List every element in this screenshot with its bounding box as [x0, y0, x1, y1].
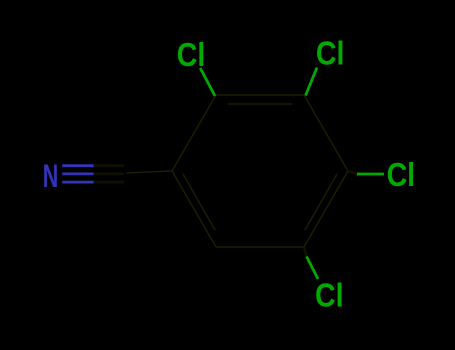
svg-text:Cl: Cl [387, 157, 416, 194]
nitrile single bond C1-C7 [126, 171, 172, 173]
ring bond C5-C6 [216, 246, 304, 248]
ring bond C4-C5 [304, 171, 348, 247]
nitrile triple bond olive half [94, 164, 124, 167]
inner aromatic line C2=C3 [228, 103, 292, 105]
bond C4-Cl4 green part [357, 173, 384, 176]
ring bond C2-C3 [216, 94, 304, 96]
nitrile triple bond blue half [62, 164, 93, 167]
bond C4-Cl4 olive stub [348, 171, 357, 174]
svg-text:Cl: Cl [316, 35, 345, 72]
bond C3-Cl3 [306, 68, 318, 96]
ring bond C1-C2 [172, 95, 216, 171]
bond C5-Cl5 olive stub [304, 247, 307, 257]
svg-text:Cl: Cl [177, 37, 206, 74]
svg-text:Cl: Cl [315, 278, 344, 315]
inner aromatic line C6=C1 [183, 174, 215, 230]
svg-text:N: N [43, 158, 59, 194]
bond C2-Cl2 [200, 68, 215, 96]
bond C5-Cl5 green part [307, 257, 319, 280]
inner aromatic line C4=C5 [305, 174, 337, 230]
ring bond C6-C1 [172, 171, 216, 247]
ring bond C3-C4 [304, 95, 348, 171]
